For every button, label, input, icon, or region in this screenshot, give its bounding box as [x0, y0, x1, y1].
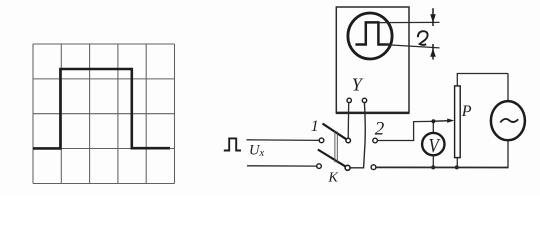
- wire upper input to terminal 1: [247, 139, 320, 142]
- oscilloscope terminal Y1: [347, 98, 351, 102]
- AC source top stub: [507, 74, 509, 102]
- bottom wire: [376, 166, 509, 168]
- AC source G1: [491, 101, 525, 140]
- wire Y1 terminal down to switch pivot: [347, 103, 350, 139]
- bottom-row terminal of position 2: [371, 165, 376, 170]
- wiper arrow into potentiometer: [435, 119, 454, 123]
- svg-text:Ux: Ux: [249, 143, 264, 159]
- AC sine symbol: [500, 119, 518, 123]
- junction dot potentiometer bottom: [455, 165, 459, 169]
- lower level extension line: [385, 45, 440, 48]
- oscillogram graticule grid: [33, 44, 175, 184]
- potentiometer P body: [455, 86, 461, 158]
- junction dot voltmeter bottom: [431, 165, 435, 169]
- svg-text:2: 2: [375, 118, 385, 139]
- oscilloscope box U1: [336, 7, 409, 113]
- switch pivot ring lower: [345, 165, 350, 170]
- wire Y2 terminal down to bottom corner: [350, 103, 365, 168]
- svg-text:P: P: [461, 103, 472, 120]
- switch mechanical link: [335, 131, 337, 164]
- AC source bottom stub: [507, 140, 509, 167]
- wire terminal 2 to wiper node: [377, 121, 431, 140]
- upper level extension line: [378, 21, 439, 23]
- terminal 2: [373, 138, 378, 143]
- voltmeter V stub up: [432, 123, 434, 133]
- switch pivot ring upper: [346, 138, 351, 143]
- switch K upper blade: [323, 124, 347, 140]
- dimension arrow bottom: [430, 44, 436, 60]
- oscilloscope screen circle: [348, 13, 392, 59]
- top wire P to AC source: [457, 73, 508, 75]
- square-wave trace on graticule: [33, 69, 170, 148]
- voltmeter V: [422, 133, 444, 155]
- svg-text:1: 1: [311, 118, 319, 135]
- input pulse symbol: [224, 138, 241, 150]
- voltmeter V stub down: [432, 155, 434, 167]
- switch K lower blade: [318, 150, 346, 167]
- dimension arrow top: [430, 8, 436, 26]
- oscilloscope terminal Y2: [362, 98, 366, 102]
- svg-text:Y: Y: [352, 75, 364, 95]
- wire lower input to lower terminal: [247, 165, 317, 167]
- pulse waveform on screen: [355, 22, 389, 44]
- dimension label l (rotated script ell): [418, 31, 428, 45]
- potentiometer bottom stub: [456, 158, 458, 168]
- lower input terminal: [317, 164, 322, 169]
- svg-text:K: K: [328, 171, 339, 186]
- terminal 1: [319, 138, 324, 143]
- potentiometer top stub: [456, 74, 458, 86]
- junction dot wiper node: [431, 119, 435, 123]
